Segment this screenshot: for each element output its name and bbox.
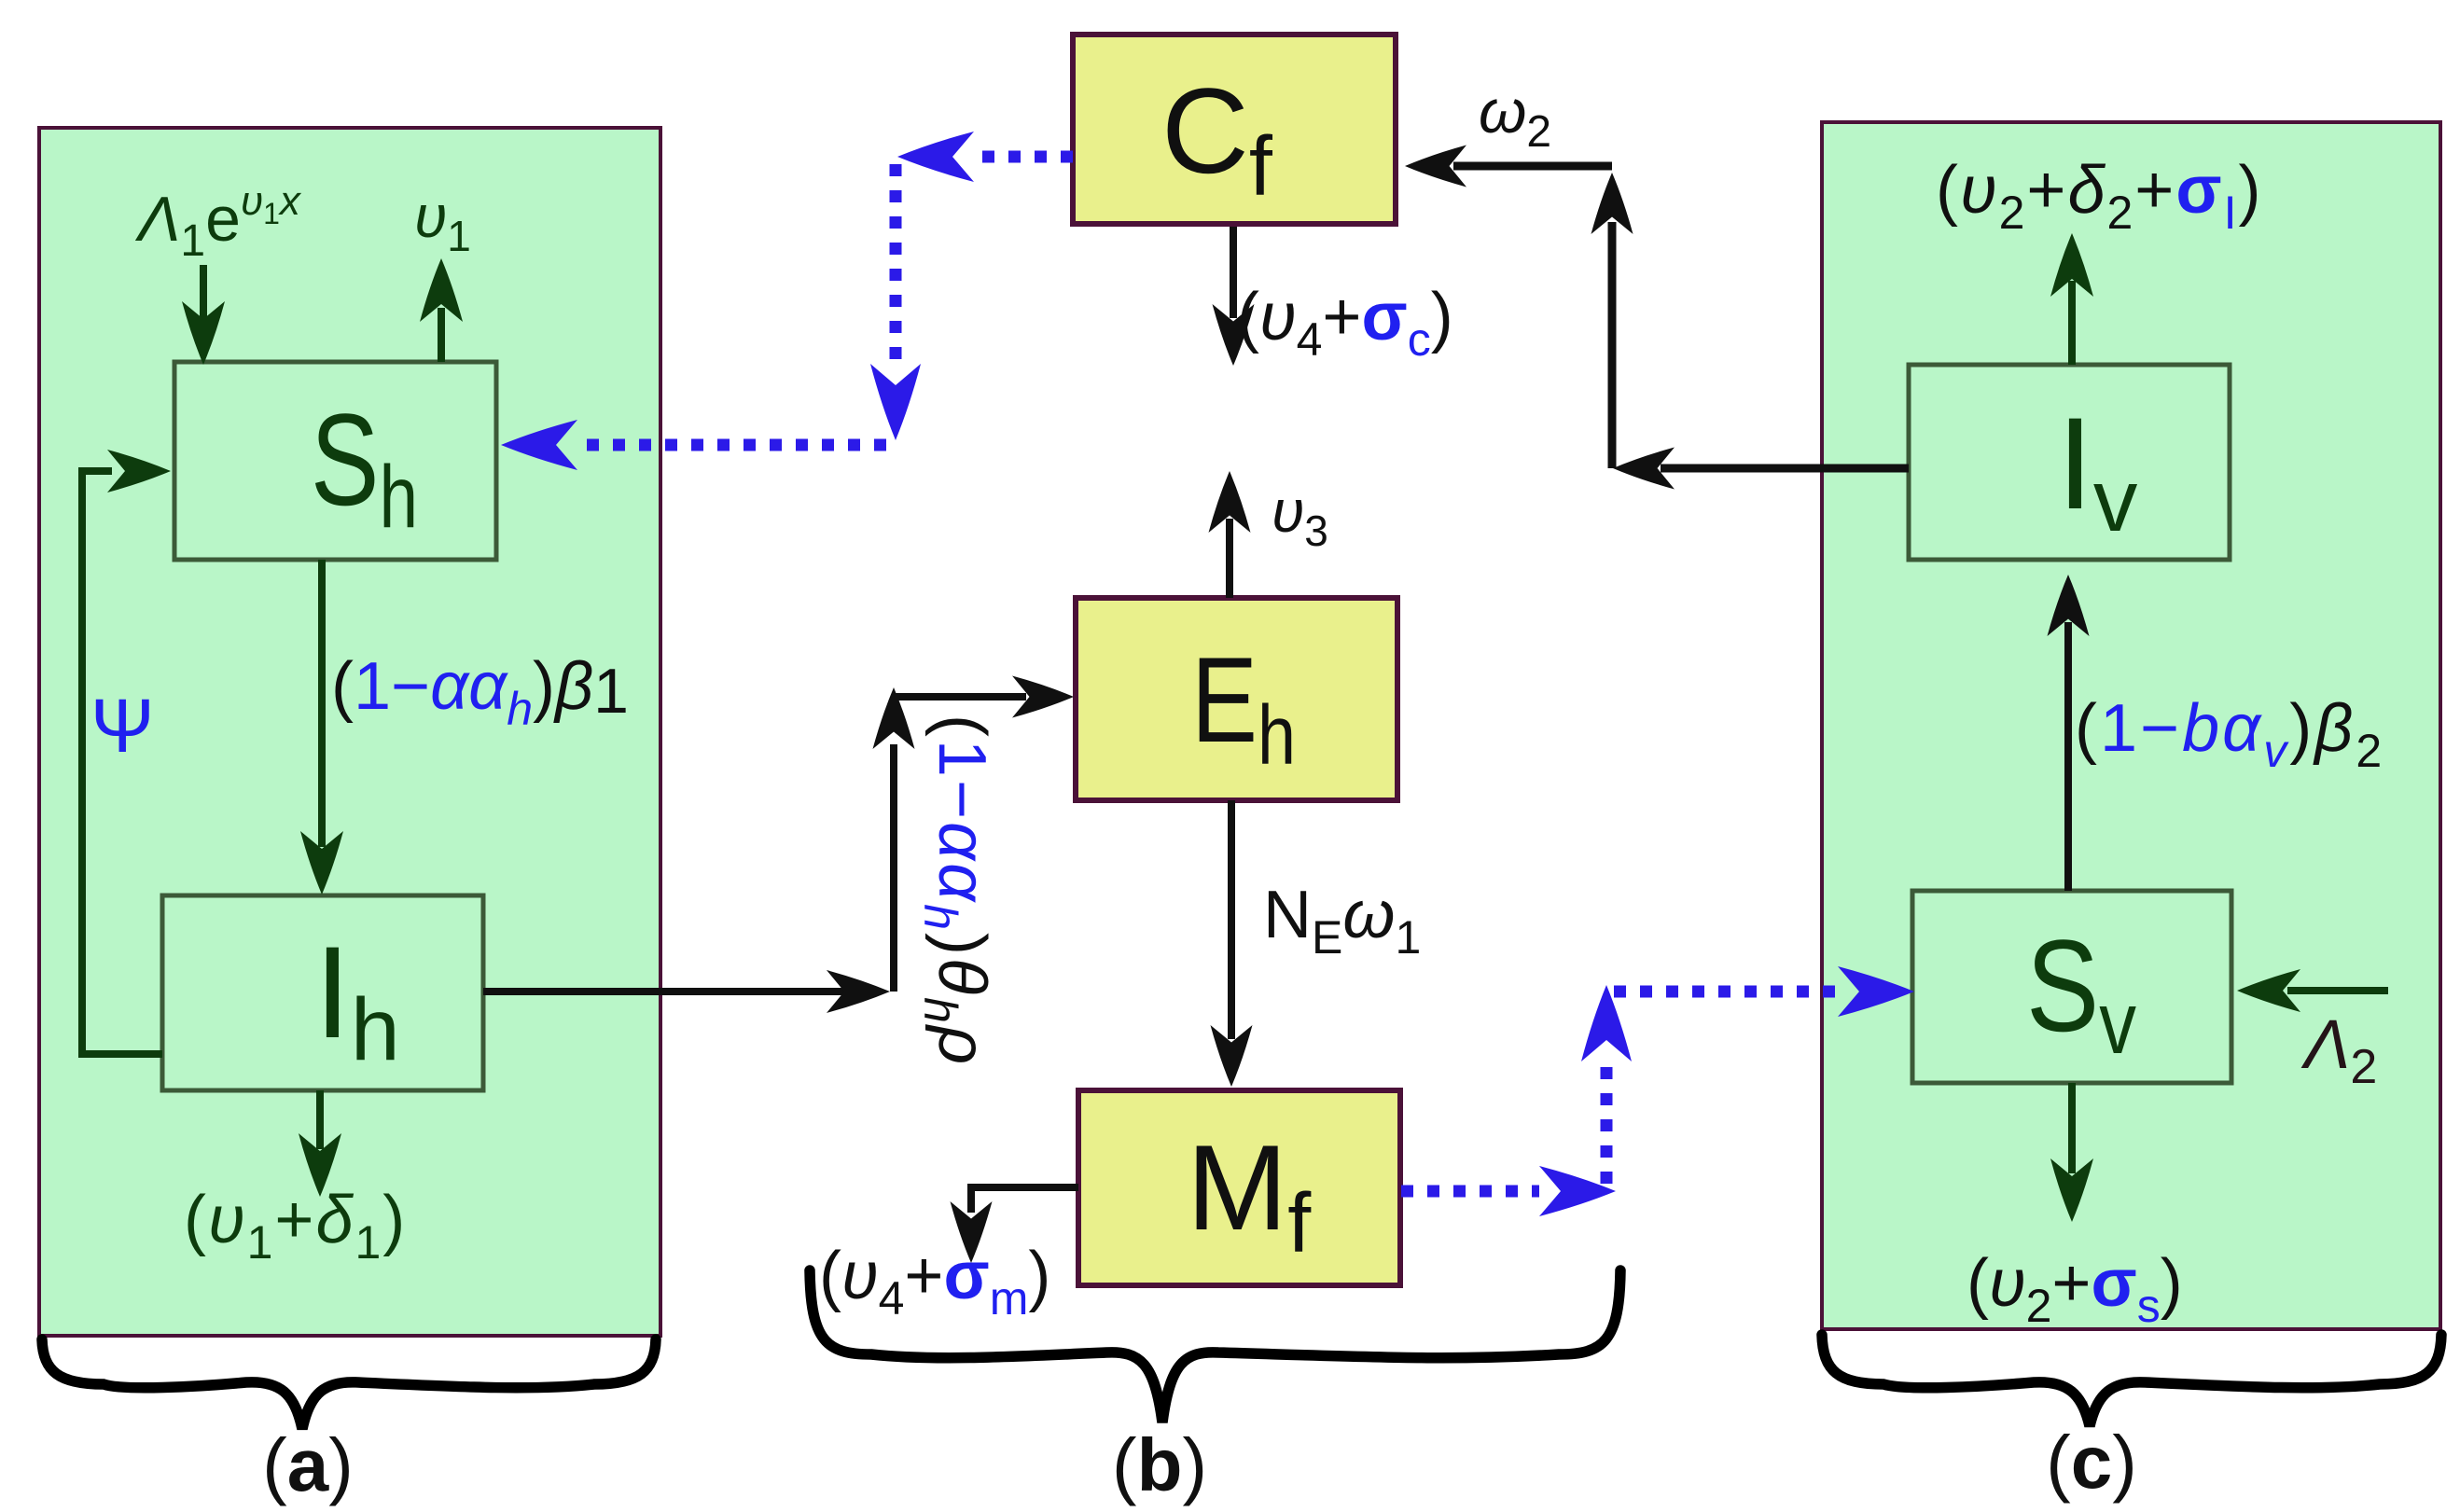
wire corner up arrow x=1728	[1608, 222, 1617, 468]
panel (c) vector compartment background	[1822, 122, 2440, 1329]
arrow E_h up to C_f v3	[1226, 519, 1233, 598]
arrow M_f left elbow death (v4+sigma_m)	[971, 1187, 1078, 1213]
svg-text:(1−ααh)β1: (1−ααh)β1	[331, 649, 629, 735]
dashed arrow into S_v	[1614, 986, 1838, 998]
box I_h infected humans	[162, 895, 483, 1090]
dashed arrow C_f left	[978, 151, 1073, 163]
svg-text:(1−bαv)β2: (1−bαv)β2	[2075, 691, 2384, 777]
panel (a) human compartment background	[39, 128, 660, 1336]
wire junction vertical up x=958	[890, 744, 897, 992]
arrow Psi loop I_h back to S_h	[82, 471, 162, 1054]
brace (b)	[810, 1270, 1620, 1422]
svg-text:(c): (c)	[2046, 1421, 2137, 1504]
arrow I_v up out (v2+delta2+sigma_I)	[2068, 281, 2076, 365]
arrow Lambda1 recruitment into S_h	[200, 265, 207, 322]
dashed wire corner down x=960	[890, 164, 902, 371]
box C_f contaminated food	[1073, 35, 1396, 224]
box I_v infected vectors	[1909, 365, 2230, 560]
arrow S_v up to I_v infection	[2064, 622, 2072, 891]
svg-text:(a): (a)	[262, 1423, 354, 1506]
arrow Lambda2 recruitment into S_v	[2287, 987, 2388, 994]
dashed arrow M_f right	[1401, 1186, 1539, 1198]
arrow I_h death out (v1+delta1)	[316, 1090, 324, 1149]
brace (c)	[1822, 1335, 2441, 1426]
arrow I_h out to junction	[483, 988, 844, 995]
arrow S_h to I_h infection	[318, 560, 326, 847]
box S_v susceptible vectors	[1912, 891, 2231, 1083]
arrow E_h down to M_f	[1228, 800, 1235, 1039]
svg-text:(b): (b)	[1112, 1423, 1207, 1506]
dashed wire corner up x=1722	[1601, 1063, 1613, 1184]
arrow C_f down out (v4+sigma_c)	[1230, 227, 1237, 318]
svg-text:Ψ: Ψ	[90, 684, 155, 769]
dashed arrow into S_h	[580, 439, 886, 451]
box E_h eggs/environment	[1076, 598, 1397, 800]
brace (a)	[42, 1339, 656, 1429]
arrow junction into E_h	[894, 693, 1026, 701]
arrow I_v left to corner	[1661, 465, 1909, 473]
box S_h susceptible humans	[174, 362, 496, 560]
svg-text:(υ2+δ2+σI): (υ2+δ2+σI)	[1936, 153, 2262, 239]
arrow v1 natural death out of S_h	[438, 308, 445, 362]
arrow S_v down out (v2+sigma_s)	[2068, 1083, 2076, 1173]
arrow omega2 from corner into C_f	[1453, 162, 1612, 171]
box M_f mature parasites	[1078, 1090, 1400, 1285]
